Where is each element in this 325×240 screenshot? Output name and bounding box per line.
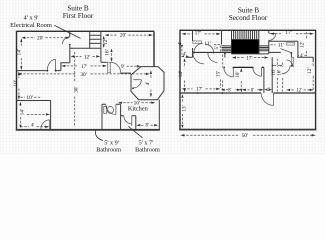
wall with pocket door right <box>297 56 313 58</box>
corridor south wall with doors <box>233 66 264 68</box>
svg-text:Bathroom: Bathroom <box>96 147 121 154</box>
vertical dashed separator <box>219 80 221 89</box>
svg-text:Electrical Room: Electrical Room <box>10 22 52 29</box>
svg-text:Second Floor: Second Floor <box>229 14 268 22</box>
dimension 4' inside kitchen <box>145 70 152 97</box>
pocket door top-left <box>193 41 202 43</box>
staircase second floor <box>232 30 259 54</box>
svg-text:8': 8' <box>251 88 254 93</box>
door near hallway <box>47 59 55 70</box>
svg-text:14': 14' <box>19 109 25 115</box>
dimension 12' (vertical by stairs) <box>103 36 109 48</box>
staircase first floor <box>90 31 101 62</box>
bottom-left room <box>17 101 51 130</box>
dimension 50' bottom <box>180 133 315 139</box>
kitchen door <box>133 79 141 81</box>
side stair treads <box>222 46 232 51</box>
dimension 12' right horizontal <box>286 89 313 94</box>
svg-text:10': 10' <box>13 80 19 86</box>
svg-text:17': 17' <box>81 64 87 70</box>
dimension 12' rot top right <box>299 32 306 56</box>
svg-text:15': 15' <box>215 71 221 77</box>
double door arcs above corridor wall <box>194 43 203 52</box>
outer walls second floor <box>180 30 316 129</box>
electrical room walls <box>69 31 71 63</box>
dimension 16' vertical a <box>271 59 277 92</box>
svg-text:11': 11' <box>278 42 284 48</box>
svg-text:12': 12' <box>307 67 313 73</box>
dimension 13' vertical bottom left <box>181 94 187 128</box>
dimension 30' (horizontal) <box>18 72 150 78</box>
dimension 10' (horizontal small) <box>21 95 42 101</box>
closet marks <box>274 65 280 67</box>
svg-text:12': 12' <box>103 39 109 45</box>
svg-text:12': 12' <box>296 89 302 94</box>
dimension 17' top-left <box>182 31 221 37</box>
small 4' dims left 2F <box>179 42 189 58</box>
svg-text:14': 14' <box>178 71 184 77</box>
door arc <box>282 65 291 74</box>
svg-text:Kitchen: Kitchen <box>128 106 149 113</box>
dimension 16' (vertical) <box>105 49 113 62</box>
title: Suite B / First Floor <box>63 5 94 21</box>
dimension 8' b <box>242 88 264 93</box>
wall right of hall with pocket door <box>101 61 108 63</box>
label: 4' x 9' Electrical Room <box>10 15 52 30</box>
svg-text:30': 30' <box>80 72 86 78</box>
dimension arrow in room <box>27 113 46 115</box>
leader to bathroom 1 <box>95 131 103 141</box>
svg-text:4': 4' <box>31 123 34 128</box>
dimension 17' top-right <box>270 30 314 36</box>
toilet <box>104 106 107 113</box>
dimension 15' vertical <box>215 55 222 92</box>
svg-text:8': 8' <box>228 88 231 93</box>
bathroom 2 (5'x7') <box>121 115 136 117</box>
svg-text:14': 14' <box>17 49 23 55</box>
svg-text:13': 13' <box>182 105 188 111</box>
dimension 10' (left vertical lower) <box>13 71 20 99</box>
svg-text:4': 4' <box>179 42 184 45</box>
hallway jog walls <box>61 63 70 71</box>
svg-text:17': 17' <box>196 87 202 93</box>
svg-text:9': 9' <box>121 64 125 70</box>
dimension 9' <box>121 64 141 70</box>
outer walls first floor <box>17 30 155 32</box>
bathroom 1 (5'x9') <box>101 104 103 129</box>
svg-text:Bathroom: Bathroom <box>135 147 160 154</box>
svg-text:8': 8' <box>145 124 148 129</box>
dimension 12' vertical right <box>307 64 313 92</box>
dimension 4' small top right <box>298 54 307 59</box>
door in wall y=93 <box>261 93 273 105</box>
dimension 20' (top left) <box>21 36 69 42</box>
dimension 14' in room <box>19 102 25 128</box>
svg-text:11': 11' <box>204 41 210 47</box>
dimension 5' vertical <box>215 46 220 52</box>
svg-text:16': 16' <box>105 49 111 55</box>
corridor wall <box>193 51 232 53</box>
graph paper background <box>0 0 325 155</box>
svg-text:50': 50' <box>242 133 248 139</box>
interior walls top-left <box>192 30 194 57</box>
title: Suite B / Second Floor <box>229 7 268 23</box>
svg-text:5' x 7': 5' x 7' <box>139 139 154 146</box>
dimension 4' middle <box>264 88 272 93</box>
dimension 8' a <box>221 88 241 93</box>
svg-text:10': 10' <box>235 71 241 77</box>
svg-text:20': 20' <box>37 36 43 42</box>
svg-text:17': 17' <box>285 30 291 36</box>
captions bathrooms <box>96 139 160 153</box>
svg-text:30': 30' <box>74 86 80 92</box>
dimension 17' bottom left <box>182 87 221 93</box>
dimension 12' (horizontal) <box>70 54 100 60</box>
svg-text:4': 4' <box>267 88 270 93</box>
dimension 10' vertical <box>235 68 243 92</box>
kitchen octagon <box>131 67 164 100</box>
svg-text:17': 17' <box>195 31 201 37</box>
top-right room walls <box>269 40 298 42</box>
dimension 16' kitchen <box>118 100 155 106</box>
dimension 11' right <box>271 42 284 48</box>
door arc electrical room <box>62 37 69 44</box>
svg-text:5': 5' <box>215 46 220 49</box>
svg-text:4': 4' <box>145 82 151 86</box>
svg-text:17': 17' <box>246 55 252 61</box>
dimension 4' at bottom wall <box>21 123 50 128</box>
black landing <box>232 39 259 54</box>
interior wall y=93 <box>180 92 316 94</box>
svg-text:12': 12' <box>299 41 305 47</box>
leader to bathroom 2 <box>128 126 142 138</box>
svg-text:4' x 9': 4' x 9' <box>23 15 38 22</box>
dimension 14' (left vertical) <box>17 38 23 70</box>
dimension 20' (top right) <box>105 33 153 39</box>
svg-text:12': 12' <box>84 54 90 60</box>
svg-text:5' x 9': 5' x 9' <box>104 140 119 147</box>
leader line from Electrical Room label <box>55 25 81 38</box>
dimension 30' (vertical) <box>74 52 80 127</box>
dimension 17' (horizontal) <box>61 64 107 70</box>
door right of stairs <box>269 33 276 35</box>
room door <box>41 120 50 129</box>
dimension 16' vertical b <box>276 63 282 92</box>
dimension 8' bottom <box>136 124 158 129</box>
svg-text:4': 4' <box>300 54 303 59</box>
svg-text:16': 16' <box>276 70 282 76</box>
svg-text:20': 20' <box>120 33 126 39</box>
svg-text:First Floor: First Floor <box>63 12 94 20</box>
dimension 11' left <box>204 41 220 47</box>
door arcs below corridor wall <box>193 53 204 64</box>
dimension 17' middle <box>232 55 269 61</box>
dimension 14' vertical <box>178 58 186 92</box>
